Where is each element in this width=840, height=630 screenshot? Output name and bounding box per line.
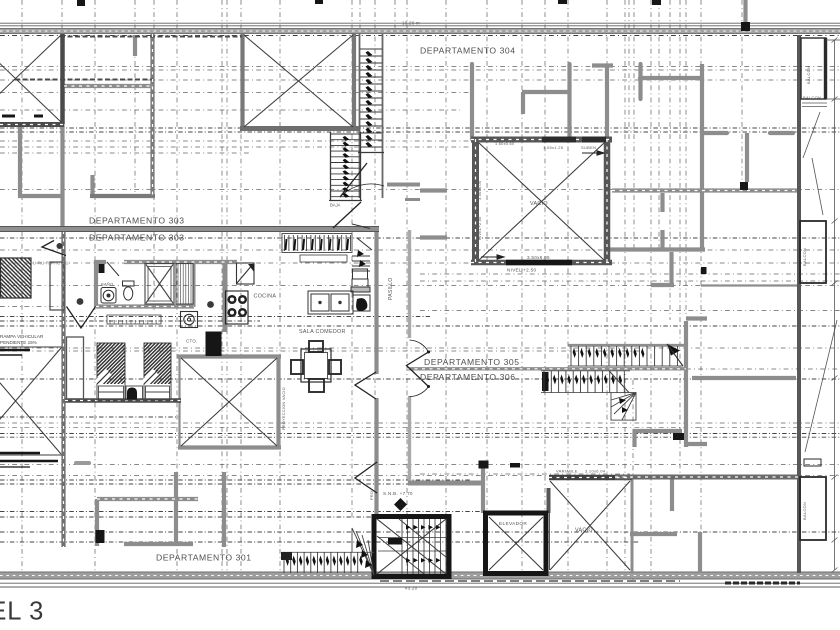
divider band dept 303 — [0, 226, 379, 231]
dining table + chairs — [291, 341, 341, 392]
svg-text:43.20: 43.20 — [405, 586, 418, 591]
stair shaft top — [360, 34, 383, 198]
stair upper run — [568, 344, 686, 347]
svg-text:COCINA: COCINA — [254, 294, 277, 300]
svg-text:CTO.: CTO. — [186, 339, 198, 344]
dark wall accents — [77, 0, 750, 543]
shelf boxes — [351, 269, 370, 311]
svg-text:DEPARTAMENTO 301: DEPARTAMENTO 301 — [156, 553, 252, 563]
svg-text:ELEVADOR: ELEVADOR — [499, 521, 527, 527]
svg-text:NIVEL+2.50: NIVEL+2.50 — [478, 216, 482, 240]
top thick wall band — [0, 28, 840, 34]
small dim arrow vacio — [481, 151, 604, 259]
svg-text:PROY.: PROY. — [370, 487, 374, 500]
X-box diagonals — [0, 35, 630, 570]
department labels — [89, 46, 520, 563]
elevator interior X — [489, 517, 543, 570]
svg-text:BALCON: BALCON — [806, 66, 811, 84]
left flight below X-box — [329, 132, 362, 201]
winder wedge left of stairwell — [352, 528, 374, 575]
bottom thick wall band — [0, 572, 840, 579]
svg-text:PROYECCION VACIO: PROYECCION VACIO — [282, 387, 286, 430]
svg-text:3.10x6.04: 3.10x6.04 — [585, 469, 606, 474]
svg-text:BAJA: BAJA — [330, 203, 341, 208]
svg-text:U RU RU RU RU: U RU RU RU RU — [33, 261, 69, 266]
svg-text:S.N.B. +7.70: S.N.B. +7.70 — [383, 491, 413, 496]
knob circles — [57, 243, 214, 308]
washer CTO — [181, 312, 198, 328]
svg-text:VACIO: VACIO — [575, 528, 593, 534]
bathroom fixtures — [101, 262, 134, 303]
nightstand — [126, 386, 143, 400]
svg-text:DEPARTAMENTO 303: DEPARTAMENTO 303 — [89, 216, 185, 226]
dimension line — [802, 38, 840, 573]
svg-text:3.50x6.05: 3.50x6.05 — [608, 181, 612, 200]
door chevrons — [42, 163, 430, 493]
svg-text:PENDIENTE 15%: PENDIENTE 15% — [0, 340, 37, 345]
closet with hangers — [282, 234, 352, 253]
door leaves near closet corner — [352, 224, 372, 250]
svg-text:PASILLO: PASILLO — [388, 277, 394, 300]
mini treads right of closet — [352, 256, 370, 271]
balconies right edge — [800, 38, 826, 540]
svg-text:RAMPA VEHICULAR: RAMPA VEHICULAR — [0, 334, 44, 339]
svg-text:3.50x6.05: 3.50x6.05 — [527, 255, 550, 260]
svg-text:10.26 m: 10.26 m — [402, 21, 420, 26]
svg-text:SALA COMEDOR: SALA COMEDOR — [299, 329, 346, 335]
stairwell interior treads — [377, 519, 446, 574]
svg-text:BAÑO: BAÑO — [101, 282, 114, 287]
svg-text:SUBEN: SUBEN — [581, 145, 596, 150]
svg-text:DEPARTAMENTO 304: DEPARTAMENTO 304 — [420, 46, 516, 56]
top boundary thin double line — [0, 23, 840, 26]
shower box — [145, 264, 174, 305]
door leaf rects — [50, 262, 64, 310]
heavy beam dash rows — [0, 128, 840, 542]
svg-text:BALCON: BALCON — [802, 502, 807, 520]
svg-text:BALCON: BALCON — [803, 95, 821, 100]
stairwell box — [374, 517, 449, 577]
svg-text:1.05x1.25: 1.05x1.25 — [543, 145, 564, 150]
winder turn — [609, 371, 636, 420]
rampa annotation — [0, 334, 44, 345]
entry walls near pasillo top — [387, 185, 420, 200]
svg-text:NIVEL +2.50: NIVEL +2.50 — [507, 268, 536, 273]
vacio big box walls — [471, 139, 612, 263]
svg-text:3.50x6.05: 3.50x6.05 — [478, 181, 482, 200]
svg-text:VACIO: VACIO — [530, 201, 548, 207]
svg-text:DEPARTAMENTO 303: DEPARTAMENTO 303 — [89, 233, 185, 243]
elevator box — [486, 513, 547, 574]
fridge with diagonal — [237, 263, 255, 284]
dresser counter below bath — [107, 315, 161, 324]
island double square — [308, 291, 353, 314]
stove 4 burners — [226, 291, 249, 324]
svg-text:BALCON: BALCON — [802, 248, 807, 266]
svg-text:1.60x0.60: 1.60x0.60 — [495, 142, 514, 146]
svg-text:VARIABLE: VARIABLE — [556, 469, 578, 474]
hatched ramp box — [1, 258, 32, 298]
svg-text:NIVEL 3: NIVEL 3 — [0, 598, 44, 626]
svg-text:DEPARTAMENTO 306: DEPARTAMENTO 306 — [420, 372, 516, 382]
svg-text:DEPARTAMENTO 305: DEPARTAMENTO 305 — [424, 357, 520, 367]
bottom stair run — [281, 551, 374, 553]
stair lower run — [541, 370, 630, 372]
striped cabinet — [176, 264, 193, 305]
